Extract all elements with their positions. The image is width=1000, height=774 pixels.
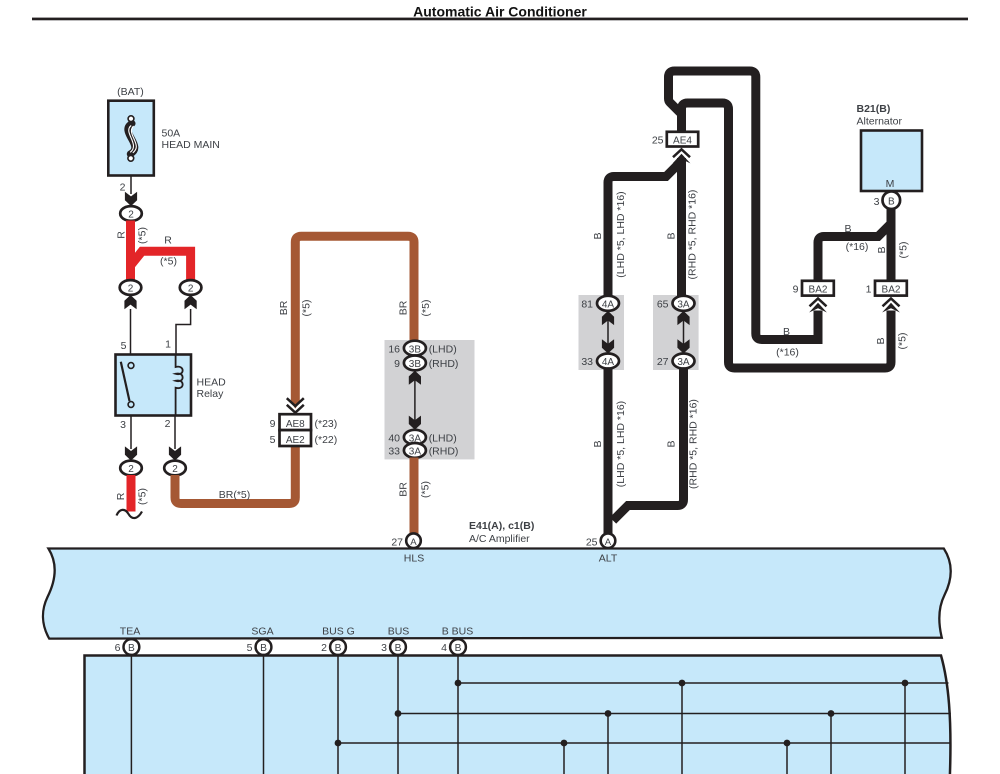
- svg-text:BR: BR: [398, 482, 410, 497]
- arrow into lower right oval: [169, 446, 181, 460]
- junction dot: [605, 710, 612, 717]
- wire BUS G vertical: [337, 656, 339, 774]
- drop wire 1a: [681, 683, 683, 774]
- svg-text:B21(B): B21(B): [857, 103, 891, 115]
- fuse 50A HEAD MAIN block: [108, 101, 154, 176]
- bus box: [85, 656, 951, 774]
- svg-text:B: B: [592, 232, 604, 239]
- svg-text:25: 25: [586, 536, 598, 548]
- svg-text:1: 1: [866, 284, 872, 296]
- fuse symbol: [128, 124, 135, 155]
- wire alternator B down to 1 BA2: [887, 209, 896, 283]
- alternator block: [861, 131, 922, 192]
- arrow up into 3B: [409, 371, 421, 385]
- wire BUS vertical: [397, 656, 399, 774]
- connector circle B: [883, 191, 901, 209]
- svg-text:BA2: BA2: [882, 285, 901, 296]
- drop wire 3a: [563, 743, 565, 774]
- svg-text:(RHD *5, RHD *16): (RHD *5, RHD *16): [687, 190, 699, 280]
- svg-text:(LHD *5, LHD *16): (LHD *5, LHD *16): [615, 401, 627, 487]
- connector oval 2 left: [120, 280, 142, 295]
- wire B-BUS vertical: [457, 656, 459, 774]
- junction block panel 3A right: [653, 295, 699, 370]
- connector oval 2: [120, 206, 142, 221]
- svg-text:B: B: [666, 440, 678, 447]
- svg-text:AE8: AE8: [286, 419, 305, 430]
- svg-text:5: 5: [121, 340, 127, 352]
- wire BR(*5) inverted U: [295, 236, 414, 403]
- wire relay pin2 down: [174, 416, 176, 450]
- connector circle B BUS G: [330, 639, 346, 655]
- relay coil: [176, 355, 183, 416]
- connector oval 3A upper right: [673, 296, 695, 311]
- svg-text:HEAD MAIN: HEAD MAIN: [162, 139, 220, 151]
- wire relay pin3 down: [130, 416, 132, 450]
- relay switch contact bottom: [128, 402, 134, 408]
- junction block panel 4A left: [579, 295, 625, 370]
- arrow up into 3A: [677, 311, 689, 325]
- wire R (*5) red branch: [131, 251, 191, 280]
- connector oval 3A lower: [404, 443, 426, 458]
- svg-text:Automatic Air Conditioner: Automatic Air Conditioner: [413, 4, 587, 20]
- svg-text:3A: 3A: [677, 300, 690, 311]
- svg-text:B: B: [888, 196, 895, 207]
- svg-text:(RHD *5, RHD *16): (RHD *5, RHD *16): [688, 399, 700, 489]
- svg-text:50A: 50A: [162, 128, 181, 140]
- svg-text:BA2: BA2: [809, 285, 828, 296]
- drop wire 2b: [830, 714, 832, 774]
- connector circle B B-BUS: [450, 639, 466, 655]
- arrow up into left oval: [124, 295, 136, 309]
- svg-text:(*5): (*5): [160, 256, 177, 268]
- connector circle B TEA: [123, 639, 139, 655]
- svg-text:B: B: [666, 232, 678, 239]
- svg-text:ALT: ALT: [599, 553, 618, 565]
- svg-text:(*22): (*22): [315, 434, 338, 446]
- arrow into lower left oval: [125, 446, 137, 460]
- junction dot: [902, 680, 909, 687]
- connector oval 2 right: [180, 280, 202, 295]
- svg-text:(*5): (*5): [420, 481, 432, 498]
- svg-text:BUS G: BUS G: [322, 626, 355, 638]
- relay switch blade: [121, 362, 130, 401]
- connector BA2 box 9: [802, 281, 834, 296]
- svg-text:33: 33: [388, 446, 400, 458]
- svg-text:4A: 4A: [602, 357, 615, 368]
- wire R (*5) red stub: [127, 475, 136, 512]
- arrow down into 3A: [409, 416, 421, 430]
- svg-text:B: B: [844, 223, 851, 235]
- svg-text:(*5): (*5): [301, 300, 313, 317]
- svg-text:(*23): (*23): [315, 418, 338, 430]
- connector AE2 box: [280, 430, 312, 446]
- svg-text:E41(A), c1(B): E41(A), c1(B): [469, 520, 534, 532]
- title rule: [32, 18, 968, 21]
- svg-text:M: M: [886, 178, 895, 190]
- svg-text:BR: BR: [398, 300, 410, 315]
- svg-text:3B: 3B: [409, 344, 422, 355]
- svg-text:3A: 3A: [409, 447, 422, 458]
- svg-text:B: B: [128, 643, 135, 654]
- wire hook outer to 9 BA2: [669, 71, 819, 340]
- wire B LHD down to ALT: [604, 368, 613, 534]
- svg-text:AE2: AE2: [286, 435, 305, 446]
- brown pointed wire tip into AE8: [291, 402, 300, 409]
- junction block panel 3B/3A: [385, 340, 475, 459]
- svg-text:HLS: HLS: [404, 553, 424, 565]
- connector circle B SGA: [256, 639, 272, 655]
- HEAD relay box: [116, 355, 192, 416]
- svg-text:5: 5: [270, 434, 276, 446]
- svg-text:A/C Amplifier: A/C Amplifier: [469, 533, 530, 545]
- svg-text:TEA: TEA: [120, 626, 140, 638]
- svg-text:1: 1: [165, 339, 171, 351]
- svg-text:B: B: [875, 337, 887, 344]
- svg-text:3: 3: [381, 642, 387, 654]
- svg-text:BR(*5): BR(*5): [219, 489, 251, 501]
- svg-text:(LHD): (LHD): [429, 343, 457, 355]
- wire between 4A ovals: [607, 315, 609, 350]
- wire B RHD vertical below AE4: [677, 158, 686, 297]
- junction dot: [561, 740, 568, 747]
- svg-text:(*5): (*5): [898, 242, 910, 259]
- svg-text:27: 27: [391, 536, 403, 548]
- junction dot: [395, 710, 402, 717]
- arrow up into 4A: [602, 311, 614, 325]
- svg-text:Relay: Relay: [197, 388, 225, 400]
- junction dot: [455, 680, 462, 687]
- svg-text:BUS: BUS: [388, 626, 410, 638]
- wire hook inner to 1 BA2: [682, 103, 892, 368]
- svg-text:2: 2: [128, 210, 134, 221]
- svg-text:(BAT): (BAT): [117, 86, 144, 98]
- svg-text:BR: BR: [278, 300, 290, 315]
- svg-text:(*5): (*5): [897, 333, 909, 350]
- wire break squiggle: [117, 510, 143, 518]
- svg-text:(RHD): (RHD): [429, 446, 459, 458]
- connector oval 3B lower: [404, 356, 426, 371]
- drop wire 1b: [904, 683, 906, 774]
- bus line 1: [458, 682, 949, 684]
- svg-text:B: B: [592, 440, 604, 447]
- wire TEA vertical: [130, 656, 132, 774]
- svg-text:R: R: [164, 235, 172, 247]
- svg-text:(LHD *5, LHD *16): (LHD *5, LHD *16): [615, 191, 627, 277]
- svg-text:B: B: [260, 643, 267, 654]
- svg-text:4A: 4A: [602, 300, 615, 311]
- svg-text:2: 2: [120, 182, 126, 194]
- svg-text:B: B: [455, 643, 462, 654]
- connector oval 3A lower right: [673, 354, 695, 369]
- junction dot: [335, 740, 342, 747]
- svg-text:9: 9: [270, 418, 276, 430]
- connector circle A ALT: [601, 533, 616, 548]
- wire B LHD branch up to AE4: [608, 161, 682, 297]
- connector oval 3B upper: [404, 341, 426, 356]
- connector arrow into BA2 9: [809, 298, 827, 312]
- svg-text:27: 27: [657, 356, 669, 368]
- svg-text:40: 40: [388, 432, 400, 444]
- relay switch contact top: [128, 363, 134, 369]
- svg-text:(*5): (*5): [137, 488, 149, 505]
- svg-text:A: A: [605, 537, 612, 548]
- svg-text:2: 2: [172, 464, 178, 475]
- connector circle A HLS: [406, 533, 421, 548]
- svg-text:SGA: SGA: [251, 626, 273, 638]
- svg-text:5: 5: [247, 642, 253, 654]
- svg-text:3B: 3B: [409, 359, 422, 370]
- wire BR(*5) from relay oval to AE2: [175, 446, 295, 504]
- svg-text:6: 6: [115, 642, 121, 654]
- svg-text:(*5): (*5): [420, 300, 432, 317]
- junction dot: [679, 680, 686, 687]
- svg-text:9: 9: [394, 358, 400, 370]
- connector oval 4A lower: [597, 354, 619, 369]
- wire R (*5) red main: [126, 221, 135, 281]
- wire to relay pin 5: [130, 309, 132, 355]
- svg-text:B: B: [395, 643, 402, 654]
- svg-text:(*16): (*16): [846, 241, 869, 253]
- connector circle B BUS: [390, 639, 406, 655]
- bus line 2: [398, 713, 951, 715]
- junction dot: [828, 710, 835, 717]
- svg-text:25: 25: [652, 135, 664, 147]
- drop wire 3b: [786, 743, 788, 774]
- connector oval 2 lower-right: [164, 461, 186, 476]
- svg-text:2: 2: [128, 284, 134, 295]
- svg-text:R: R: [115, 492, 127, 500]
- svg-text:3: 3: [874, 196, 880, 208]
- svg-text:B: B: [783, 326, 790, 338]
- wire fuse to connector 2: [130, 176, 132, 195]
- amplifier band: [43, 549, 951, 639]
- svg-text:16: 16: [388, 343, 400, 355]
- drop wire 2a: [607, 714, 609, 774]
- arrow up into right oval: [185, 295, 197, 309]
- junction dot: [784, 740, 791, 747]
- arrow down into 3A lower: [677, 339, 689, 353]
- svg-text:2: 2: [165, 418, 171, 430]
- wire SGA vertical: [263, 656, 265, 774]
- svg-text:B: B: [876, 246, 888, 253]
- svg-text:81: 81: [581, 299, 593, 311]
- wire between 3A ovals: [683, 315, 685, 350]
- connector oval 3A upper: [404, 430, 426, 445]
- svg-text:B BUS: B BUS: [442, 626, 474, 638]
- svg-text:2: 2: [321, 642, 327, 654]
- arrow into connector: [125, 192, 137, 206]
- svg-text:(*5): (*5): [137, 227, 149, 244]
- svg-text:Alternator: Alternator: [857, 116, 903, 128]
- arrow down into 4A lower: [602, 339, 614, 353]
- wire between 3B and 3A: [414, 375, 416, 426]
- connector AE4 box: [667, 132, 698, 147]
- connector oval 4A upper: [597, 296, 619, 311]
- wire BR (*5) to amplifier: [410, 458, 419, 534]
- svg-text:9: 9: [793, 284, 799, 296]
- svg-text:AE4: AE4: [673, 136, 692, 147]
- svg-text:2: 2: [188, 284, 194, 295]
- connector arrow into AE8: [287, 398, 304, 413]
- svg-text:33: 33: [581, 356, 593, 368]
- svg-text:A: A: [410, 537, 417, 548]
- connector arrow into BA2 1: [882, 298, 900, 312]
- svg-text:R: R: [116, 231, 128, 239]
- bus line 3: [338, 742, 951, 744]
- svg-text:3A: 3A: [677, 357, 690, 368]
- svg-text:3: 3: [120, 419, 126, 431]
- connector arrow into AE4: [673, 149, 691, 163]
- connector BA2 box 1: [875, 281, 907, 296]
- svg-text:4: 4: [441, 642, 447, 654]
- wire 9 BA2 up to branch: [818, 224, 891, 283]
- svg-text:B: B: [335, 643, 342, 654]
- svg-text:65: 65: [657, 299, 669, 311]
- wire B RHD down then merge: [613, 368, 684, 521]
- svg-text:(*16): (*16): [776, 347, 799, 359]
- wire to relay pin 1: [176, 309, 191, 355]
- svg-text:2: 2: [128, 464, 134, 475]
- svg-text:(RHD): (RHD): [429, 358, 459, 370]
- connector AE8 box: [280, 414, 312, 430]
- connector oval 2 lower-left: [120, 461, 142, 476]
- svg-text:HEAD: HEAD: [197, 377, 227, 389]
- svg-text:(LHD): (LHD): [429, 432, 457, 444]
